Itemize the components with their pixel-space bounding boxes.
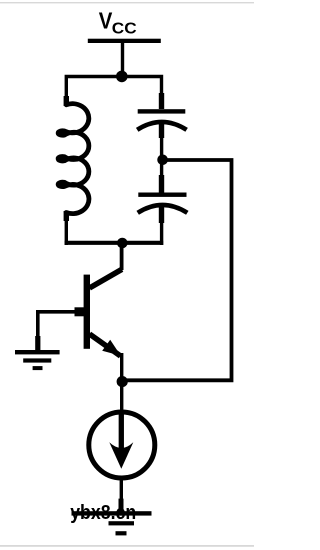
base bar xyxy=(84,275,90,349)
svg-text:CC: CC xyxy=(112,20,137,37)
feedback wire node B to emitter node xyxy=(124,160,232,380)
page bottom border xyxy=(0,545,254,547)
bottom rail wire xyxy=(65,241,164,245)
power label VCC xyxy=(99,8,137,38)
base wire to ground xyxy=(38,312,76,340)
wire node C to transistor collector xyxy=(120,245,124,270)
emitter arrowhead xyxy=(102,340,121,356)
top rail wire xyxy=(66,77,161,108)
node E junction dot xyxy=(117,376,128,387)
svg-text:V: V xyxy=(99,8,113,34)
node C junction dot on bottom rail xyxy=(117,238,128,249)
wire node E to current source xyxy=(120,385,123,412)
ground symbol (base) xyxy=(15,350,60,370)
capacitor C2 xyxy=(138,163,188,245)
base lead stub xyxy=(75,307,88,316)
wire current source to ground xyxy=(120,478,123,502)
transistor Q1 xyxy=(75,269,122,356)
wire emitter to node E xyxy=(120,353,123,380)
VCC supply rail bar xyxy=(88,39,161,43)
wire VCC bar to node A xyxy=(121,42,124,75)
wire inductor bottom to bottom rail xyxy=(65,219,68,245)
ground symbol (bottom) with strike line xyxy=(72,511,152,535)
node B junction dot between capacitors xyxy=(157,155,168,166)
inductor L1 xyxy=(58,96,89,221)
collector lead xyxy=(90,269,122,288)
emitter lead xyxy=(90,334,121,356)
current source I1 xyxy=(89,412,155,478)
node A junction dot xyxy=(116,71,128,83)
capacitor C1 xyxy=(137,93,186,156)
page top border xyxy=(0,2,254,3)
